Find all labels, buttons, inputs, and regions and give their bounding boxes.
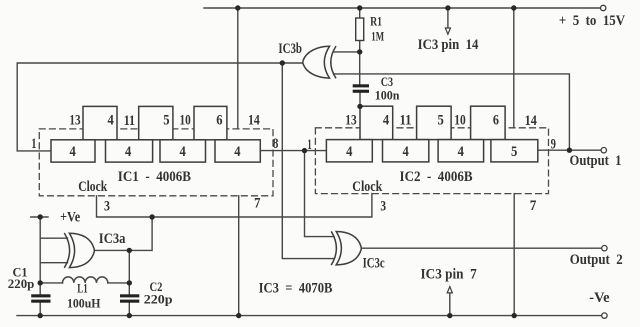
svg-text:+ 5 to 15V: + 5 to 15V <box>559 13 625 29</box>
svg-text:L1: L1 <box>77 282 87 296</box>
svg-text:1M: 1M <box>371 30 384 44</box>
svg-text:13: 13 <box>69 111 81 128</box>
svg-text:1: 1 <box>307 136 312 153</box>
svg-text:4: 4 <box>69 143 75 159</box>
svg-text:Output 2: Output 2 <box>570 252 623 268</box>
svg-text:14: 14 <box>525 112 537 128</box>
svg-text:R1: R1 <box>370 16 382 29</box>
svg-text:220p: 220p <box>8 277 35 291</box>
svg-text:4: 4 <box>383 112 389 128</box>
svg-text:5: 5 <box>163 112 169 128</box>
svg-text:IC2 - 4006B: IC2 - 4006B <box>400 168 473 185</box>
svg-text:7: 7 <box>254 195 260 211</box>
svg-text:6: 6 <box>216 112 222 128</box>
svg-text:9: 9 <box>551 135 557 152</box>
svg-text:-Ve: -Ve <box>589 290 610 306</box>
svg-text:6: 6 <box>493 111 499 127</box>
svg-text:100uH: 100uH <box>67 296 101 310</box>
svg-text:IC1 - 4006B: IC1 - 4006B <box>118 168 191 185</box>
svg-text:100n: 100n <box>375 88 400 102</box>
svg-text:IC3b: IC3b <box>278 39 302 56</box>
svg-text:10: 10 <box>180 111 192 128</box>
svg-text:10: 10 <box>454 111 466 128</box>
svg-text:5: 5 <box>438 112 444 128</box>
svg-text:8: 8 <box>273 135 279 152</box>
svg-text:Clock: Clock <box>78 177 107 194</box>
svg-text:13: 13 <box>345 111 357 128</box>
svg-text:4: 4 <box>234 143 240 159</box>
svg-text:5: 5 <box>511 143 517 159</box>
svg-text:4: 4 <box>346 143 352 159</box>
svg-text:IC3c: IC3c <box>363 254 385 271</box>
svg-text:3: 3 <box>380 197 386 214</box>
svg-text:IC3a: IC3a <box>99 231 126 247</box>
svg-text:IC3 pin 7: IC3 pin 7 <box>421 266 477 283</box>
svg-text:220p: 220p <box>144 292 173 306</box>
svg-text:Clock: Clock <box>352 178 382 195</box>
svg-text:3: 3 <box>104 197 110 214</box>
svg-text:4: 4 <box>125 143 131 159</box>
svg-text:1: 1 <box>31 135 36 151</box>
svg-text:IC3 = 4070B: IC3 = 4070B <box>259 280 333 296</box>
svg-text:4: 4 <box>458 143 464 159</box>
svg-text:7: 7 <box>530 197 537 214</box>
svg-text:4: 4 <box>402 143 408 159</box>
svg-text:14: 14 <box>248 111 260 128</box>
svg-text:IC3 pin 14: IC3 pin 14 <box>418 37 479 53</box>
svg-text:11: 11 <box>400 113 412 129</box>
svg-text:4: 4 <box>108 111 114 127</box>
svg-text:4: 4 <box>180 143 186 159</box>
svg-text:11: 11 <box>124 111 135 128</box>
svg-text:+Ve: +Ve <box>60 208 80 224</box>
svg-text:Output 1: Output 1 <box>570 153 622 169</box>
